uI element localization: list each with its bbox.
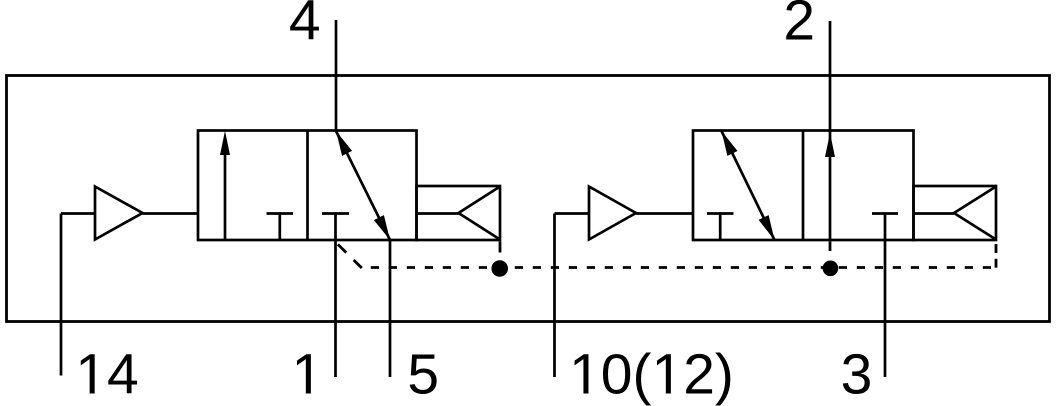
label 1: [297, 354, 311, 393]
valve V2 pilot triangle (port 10 side): [589, 187, 636, 240]
valve V1 body: [198, 131, 417, 241]
valve V2 blocked port (left chamber): [707, 214, 734, 241]
valve V1 chamber divider: [306, 131, 309, 241]
svg-text:2: 2: [783, 0, 815, 53]
valve V2 chamber divider: [802, 131, 805, 241]
valve V2 pilot return box (right side): [914, 186, 997, 240]
svg-text:3: 3: [841, 343, 873, 406]
label 14: [81, 354, 95, 393]
svg-text:4: 4: [107, 343, 139, 406]
junction dot A: [491, 260, 508, 277]
wire port 10(12): [553, 214, 556, 378]
dashed pilot signal line (diagonal elbow): [336, 242, 362, 268]
valve V1 blocked port (right chamber): [322, 212, 349, 215]
svg-text:5: 5: [407, 343, 439, 406]
wire port 3: [884, 214, 887, 378]
dashed stub under V1 pilot box: [499, 242, 502, 253]
valve V2 flow arrow (right chamber) + port 2 line: [829, 21, 832, 240]
wire port 5: [389, 240, 392, 377]
svg-text:2: 2: [683, 343, 715, 406]
wire triangle to V2 body: [636, 212, 693, 215]
dashed stub under V2 pilot box: [995, 244, 998, 268]
valve V1 pilot return box (right side): [417, 186, 501, 240]
svg-text:(: (: [632, 343, 651, 406]
dashed stub above junction B: [829, 242, 832, 252]
enclosure border: [7, 76, 1050, 322]
wire port 4: [335, 20, 338, 131]
wire port 1: [334, 214, 337, 378]
valve V1 diagonal flow arrow (right chamber): [336, 131, 390, 240]
wire pilot 10 to triangle: [555, 212, 590, 215]
label 10(12): [575, 354, 589, 393]
wire triangle to V1 body: [143, 212, 199, 215]
dashed pilot signal line (horizontal run): [362, 266, 996, 269]
valve V2 body: [693, 131, 914, 241]
svg-text:): ): [715, 343, 734, 406]
svg-text:4: 4: [289, 0, 321, 53]
junction dot B: [823, 261, 839, 277]
valve V2 blocked port (right chamber): [872, 212, 898, 215]
wire pilot 14 to triangle: [61, 212, 95, 215]
wire port 14: [60, 214, 63, 376]
svg-text:0: 0: [601, 343, 633, 406]
valve V2 diagonal flow arrow (left chamber): [722, 131, 775, 240]
valve V1 flow arrow (left chamber): [224, 152, 227, 240]
valve V1 pilot triangle (port 14 side): [95, 187, 143, 240]
valve V1 blocked port (left chamber): [267, 214, 294, 241]
